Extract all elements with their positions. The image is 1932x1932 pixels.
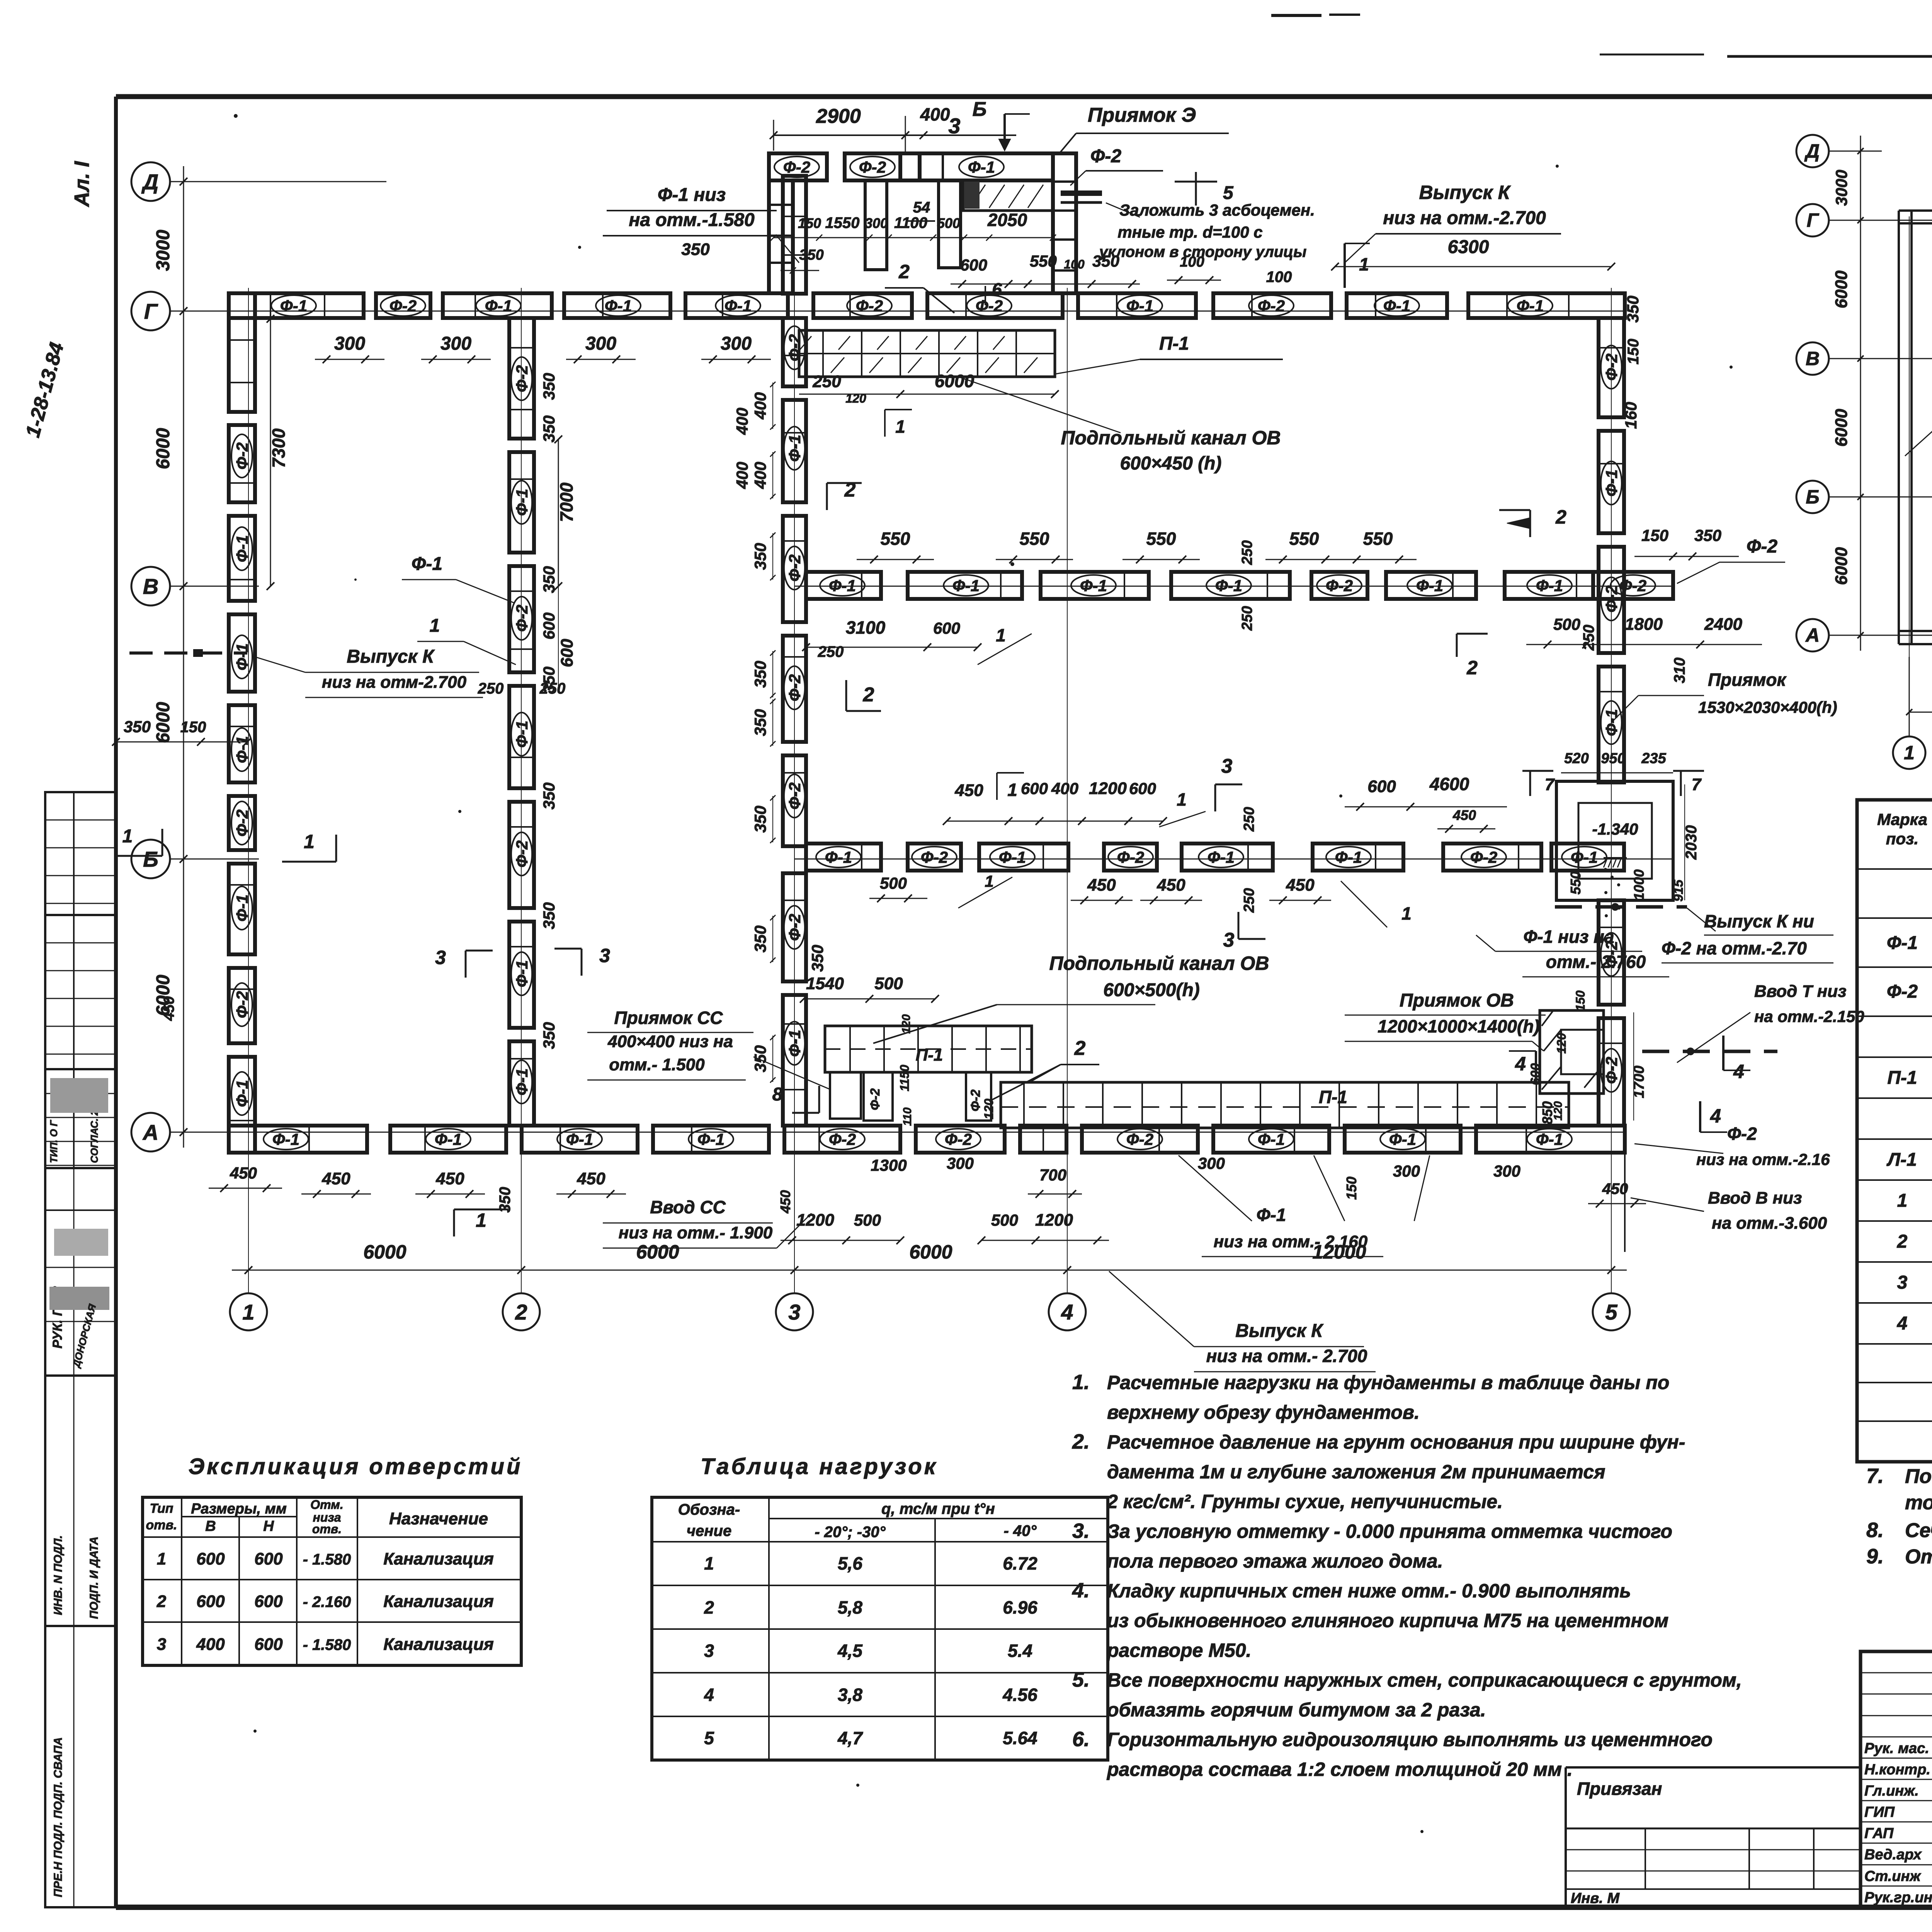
svg-text:Б: Б (143, 847, 158, 871)
svg-text:Ф-1: Ф-1 (1389, 1130, 1416, 1148)
svg-text:Приямок: Приямок (1708, 670, 1787, 690)
svg-text:2 кгс/см². Грунты сухие, непу: 2 кгс/см². Грунты сухие, непучинистые. (1107, 1491, 1503, 1512)
svg-text:600: 600 (960, 256, 987, 274)
svg-text:Б: Б (973, 98, 987, 121)
dims above axis B wall (943, 755, 1507, 951)
svg-text:Ф-2: Ф-2 (513, 840, 531, 867)
dims below axis B wall (869, 872, 1412, 927)
load plan axis lines (1829, 143, 1932, 736)
svg-text:1100: 1100 (894, 214, 927, 231)
svg-text:Ввод Т низ: Ввод Т низ (1754, 982, 1847, 1001)
svg-text:чение: чение (687, 1522, 731, 1539)
svg-text:Г: Г (1807, 209, 1820, 231)
svg-text:1: 1 (996, 625, 1006, 645)
svg-text:Ф-1: Ф-1 (435, 1130, 462, 1148)
svg-text:150: 150 (798, 215, 821, 231)
svg-text:150: 150 (1625, 339, 1642, 365)
svg-text:5: 5 (1223, 183, 1234, 203)
svg-text:В: В (205, 1518, 216, 1534)
svg-text:2: 2 (863, 684, 874, 706)
svg-text:3: 3 (1221, 755, 1233, 777)
svg-text:6000: 6000 (909, 1241, 952, 1263)
dim 600 on axis2 (558, 586, 559, 692)
svg-text:400: 400 (1051, 779, 1078, 798)
svg-text:Ф-2: Ф-2 (233, 991, 251, 1018)
svg-text:А: А (1805, 624, 1820, 646)
svg-text:2030: 2030 (1683, 825, 1700, 860)
svg-text:Ф-2 на отм.-2.70: Ф-2 на отм.-2.70 (1662, 938, 1807, 958)
svg-text:3: 3 (788, 1300, 800, 1324)
svg-text:Ф-1: Ф-1 (233, 1080, 251, 1107)
svg-text:1.: 1. (1072, 1371, 1090, 1394)
svg-text:Ф-1: Ф-1 (513, 721, 531, 748)
svg-text:Ф-1: Ф-1 (280, 297, 307, 315)
rotated dims along axis 2 (540, 373, 558, 1049)
svg-text:400: 400 (196, 1635, 225, 1654)
svg-text:Ф-2: Ф-2 (1090, 146, 1121, 167)
svg-text:600: 600 (540, 612, 558, 639)
bottom leaders and dims (301, 1124, 1830, 1372)
svg-text:Приямок Э: Приямок Э (1088, 104, 1196, 126)
svg-text:6000: 6000 (636, 1241, 679, 1263)
svg-text:Ф-1: Ф-1 (1258, 1130, 1285, 1148)
svg-text:Ф-2: Ф-2 (513, 365, 531, 392)
svg-text:4.56: 4.56 (1002, 1685, 1037, 1705)
svg-text:400: 400 (920, 104, 950, 124)
svg-text:9.: 9. (1866, 1545, 1884, 1568)
svg-text:7000: 7000 (556, 482, 577, 522)
svg-text:6.72: 6.72 (1003, 1553, 1037, 1573)
svg-text:6300: 6300 (1448, 237, 1489, 257)
svg-text:на отм.-2.150: на отм.-2.150 (1754, 1007, 1864, 1026)
svg-text:За условную отметку - 0.000 п: За условную отметку - 0.000 принята отме… (1107, 1520, 1672, 1542)
svg-text:ИНВ. N ПОДЛ.: ИНВ. N ПОДЛ. (52, 1535, 65, 1615)
svg-text:Ф-2: Ф-2 (859, 158, 886, 176)
svg-text:Ф-2: Ф-2 (1727, 1124, 1757, 1144)
svg-text:2900: 2900 (816, 105, 861, 128)
svg-text:600: 600 (1367, 777, 1396, 796)
leader F-1 and 1 on axis2 wall (402, 554, 516, 665)
svg-text:550: 550 (1030, 252, 1057, 270)
svg-text:Ф-1: Ф-1 (968, 158, 995, 176)
svg-text:ГАП: ГАП (1864, 1825, 1894, 1842)
svg-text:350: 350 (751, 925, 769, 952)
svg-text:Ф-1: Ф-1 (697, 1130, 724, 1148)
svg-text:500: 500 (937, 215, 960, 231)
svg-text:Д: Д (1804, 140, 1820, 162)
svg-text:Ф-1: Ф-1 (412, 554, 442, 574)
svg-text:Вед.арх: Вед.арх (1864, 1847, 1922, 1863)
svg-text:350: 350 (751, 1045, 769, 1072)
secondary vertical dimension 7000 (478, 435, 577, 697)
svg-text:Отметка низа фундаментов - 2.: Отметка низа фундаментов - 2.160, кроме … (1905, 1546, 1932, 1568)
svg-text:350: 350 (751, 709, 769, 736)
svg-text:450: 450 (1452, 807, 1476, 823)
pit near axis5 between V and B (1556, 670, 1837, 901)
svg-text:Назначение: Назначение (389, 1509, 488, 1528)
svg-text:Г: Г (144, 299, 158, 323)
svg-text:1550: 1550 (825, 214, 860, 231)
interior wall along axis V (806, 572, 1673, 599)
svg-text:Ф-1: Ф-1 (786, 435, 804, 462)
svg-text:Ф-1: Ф-1 (233, 643, 251, 670)
svg-text:915: 915 (1671, 879, 1686, 902)
svg-text:350: 350 (540, 373, 558, 400)
svg-text:150: 150 (1641, 526, 1668, 544)
svg-text:450: 450 (161, 996, 177, 1021)
svg-text:Расчетные нагрузки на фунда: Расчетные нагрузки на фундаменты в табли… (1107, 1372, 1669, 1393)
svg-text:120: 120 (1554, 1033, 1568, 1054)
leader Vypusk K top right (1266, 182, 1615, 286)
svg-text:400: 400 (751, 462, 769, 489)
svg-text:600: 600 (1021, 779, 1048, 798)
svg-text:1: 1 (476, 1209, 486, 1231)
svg-text:2: 2 (1074, 1037, 1086, 1060)
svg-text:250: 250 (1239, 606, 1255, 631)
svg-text:Ф-2: Ф-2 (1619, 577, 1646, 595)
svg-text:400: 400 (733, 408, 751, 435)
svg-text:550: 550 (1568, 871, 1583, 895)
svg-text:6000: 6000 (153, 702, 173, 743)
svg-text:400: 400 (733, 462, 751, 489)
svg-text:4,5: 4,5 (837, 1641, 863, 1661)
left outside leaders (112, 646, 483, 1192)
svg-text:300: 300 (1393, 1162, 1420, 1180)
svg-text:300: 300 (585, 333, 616, 354)
bottom axis circles 1-5 (230, 1293, 1630, 1330)
section marks middle (282, 410, 1566, 1236)
svg-text:1: 1 (895, 417, 905, 437)
svg-text:Ф-2: Ф-2 (513, 605, 531, 632)
svg-text:Расчетное давление на грунт: Расчетное давление на грунт основания пр… (1107, 1431, 1685, 1453)
notes 1-6 (1072, 1371, 1742, 1780)
svg-text:отм.- 1.500: отм.- 1.500 (609, 1055, 705, 1074)
left margin stamp strip (45, 792, 116, 1907)
svg-text:Инв. М: Инв. М (1571, 1890, 1620, 1906)
svg-text:пола первого этажа жилого: пола первого этажа жилого дома. (1107, 1550, 1443, 1572)
svg-text:350: 350 (540, 902, 558, 929)
svg-text:300: 300 (1493, 1162, 1520, 1180)
svg-text:850: 850 (1539, 1101, 1555, 1124)
utility entry dashed lines right of axis 5 (1555, 868, 1777, 1082)
dims 400 gaps axis3 upper (733, 408, 751, 489)
svg-text:- 20°; -30°: - 20°; -30° (815, 1524, 886, 1541)
svg-text:4: 4 (1061, 1300, 1073, 1324)
svg-text:Ф-2: Ф-2 (968, 1090, 983, 1112)
svg-text:600: 600 (196, 1592, 225, 1611)
svg-text:350: 350 (751, 661, 769, 688)
svg-text:1150: 1150 (898, 1065, 912, 1091)
svg-text:250: 250 (1241, 807, 1257, 832)
leader Priyamok E (1058, 104, 1229, 185)
svg-text:Ф-1: Ф-1 (724, 297, 752, 315)
svg-text:6.96: 6.96 (1003, 1597, 1037, 1617)
svg-text:350: 350 (751, 806, 769, 833)
svg-text:Б: Б (1806, 486, 1819, 508)
svg-text:В: В (143, 574, 158, 599)
rotated dims along axis 3 (751, 382, 827, 1083)
svg-text:1540: 1540 (806, 974, 844, 993)
svg-text:3000: 3000 (1832, 170, 1850, 206)
wall along axis 5 (right) (1599, 318, 1624, 1126)
svg-text:450: 450 (1156, 876, 1185, 895)
svg-text:Ф-1: Ф-1 (1126, 297, 1153, 315)
svg-text:отв.: отв. (146, 1518, 177, 1532)
svg-text:520: 520 (1564, 750, 1588, 767)
svg-text:- 1.580: - 1.580 (303, 1636, 351, 1653)
svg-text:Выпуск К: Выпуск К (1419, 182, 1511, 203)
svg-text:Ф-1: Ф-1 (999, 848, 1026, 866)
svg-text:550: 550 (1363, 529, 1393, 549)
svg-text:Ф-1: Ф-1 (566, 1130, 593, 1148)
svg-text:П-1: П-1 (1159, 333, 1189, 354)
svg-text:450: 450 (1087, 876, 1116, 895)
svg-text:400×400 низ на: 400×400 низ на (607, 1032, 733, 1051)
svg-text:Ф-2: Ф-2 (1747, 536, 1777, 557)
axis circle V (131, 567, 170, 605)
svg-text:П-1: П-1 (1319, 1087, 1347, 1107)
svg-text:Ф-2: Ф-2 (233, 442, 251, 469)
leader Zalozhit 3 asbocement pipes (1061, 172, 1315, 260)
svg-text:Ф-2: Ф-2 (1887, 981, 1918, 1002)
section 7 marks at pit (1522, 771, 1704, 796)
axis circle G (131, 292, 170, 330)
svg-text:2: 2 (156, 1592, 167, 1611)
svg-text:Под сборными фундаментами устр: Под сборными фундаментами устраивать пес… (1905, 1465, 1932, 1488)
load plan left dim line (1832, 136, 1864, 651)
svg-text:Ф-1: Ф-1 (1536, 1130, 1563, 1148)
svg-text:3: 3 (157, 1635, 166, 1654)
svg-text:3: 3 (435, 947, 446, 968)
svg-text:5.64: 5.64 (1003, 1728, 1037, 1748)
svg-text:поз.: поз. (1886, 830, 1918, 848)
svg-text:350: 350 (540, 415, 558, 442)
svg-text:3100: 3100 (846, 617, 886, 638)
svg-text:ТИП. О Г: ТИП. О Г (48, 1120, 60, 1163)
svg-text:Ал. I: Ал. I (70, 161, 94, 207)
load plan bottom dim line (1906, 681, 1932, 715)
svg-text:235: 235 (1641, 750, 1666, 767)
svg-text:350: 350 (1624, 296, 1642, 323)
svg-text:Сечения и развертки смотри: Сечения и развертки смотри лист 18 (1905, 1519, 1932, 1542)
left overall dimension line (153, 166, 187, 1148)
svg-text:6000: 6000 (1832, 270, 1851, 308)
svg-text:600: 600 (254, 1635, 283, 1654)
svg-text:500: 500 (1553, 615, 1580, 633)
svg-text:7.: 7. (1866, 1464, 1884, 1488)
svg-text:2: 2 (1555, 506, 1566, 528)
svg-text:5,6: 5,6 (838, 1553, 862, 1573)
svg-text:5: 5 (704, 1728, 714, 1748)
svg-text:350: 350 (751, 543, 769, 570)
svg-text:1: 1 (157, 1549, 166, 1568)
svg-text:Ф-2: Ф-2 (786, 674, 804, 701)
svg-text:6: 6 (992, 279, 1002, 299)
svg-text:- 1.580: - 1.580 (303, 1551, 351, 1568)
svg-text:4: 4 (1733, 1061, 1744, 1082)
svg-text:1: 1 (1007, 780, 1017, 800)
svg-text:350: 350 (540, 566, 558, 593)
svg-text:ГИП: ГИП (1864, 1804, 1895, 1820)
svg-text:110: 110 (901, 1107, 914, 1126)
svg-text:3.: 3. (1072, 1519, 1090, 1543)
svg-text:верхнему обрезу фундаментов.: верхнему обрезу фундаментов. (1107, 1401, 1420, 1423)
svg-text:1: 1 (1904, 742, 1915, 764)
section mark 2 left-center (827, 479, 881, 711)
svg-text:низ на отм-2.700: низ на отм-2.700 (322, 673, 467, 692)
svg-text:Ф-1 низ: Ф-1 низ (658, 185, 726, 205)
svg-text:Ф-1: Ф-1 (1536, 577, 1563, 595)
svg-text:54: 54 (913, 199, 930, 216)
svg-text:5.: 5. (1072, 1668, 1090, 1691)
svg-text:Ф-1: Ф-1 (1383, 297, 1410, 315)
svg-text:300: 300 (947, 1154, 974, 1172)
svg-text:на отм.-1.580: на отм.-1.580 (629, 210, 755, 230)
svg-text:2050: 2050 (987, 210, 1027, 230)
svg-text:В: В (1806, 348, 1820, 369)
svg-text:100: 100 (1064, 257, 1085, 271)
secondary vertical dimension 7300 (267, 315, 289, 590)
svg-text:1200×1000×1400(h): 1200×1000×1400(h) (1378, 1016, 1539, 1036)
leader Priyamok SS (587, 1008, 831, 1090)
dims 550 above axis V wall (857, 526, 1739, 563)
svg-text:- 40°: - 40° (1004, 1522, 1037, 1539)
svg-text:Заложить 3 асбоцемен.: Заложить 3 асбоцемен. (1119, 201, 1315, 219)
wall along axis 1 (left) (229, 293, 255, 1153)
svg-text:2: 2 (898, 261, 910, 282)
svg-text:Ф-2: Ф-2 (1126, 1130, 1153, 1148)
svg-text:ПРЕ.Н ПОДЛ. ПОДП. СВАПА: ПРЕ.Н ПОДЛ. ПОДП. СВАПА (52, 1737, 65, 1897)
svg-text:500: 500 (991, 1211, 1018, 1229)
svg-text:q, тс/м при t°н: q, тс/м при t°н (881, 1500, 995, 1517)
corner marks top-left (22, 161, 94, 440)
svg-text:Ф-1: Ф-1 (1257, 1205, 1286, 1225)
svg-text:600: 600 (196, 1549, 225, 1568)
svg-text:- 2.160: - 2.160 (303, 1594, 351, 1611)
svg-text:Ф-1: Ф-1 (233, 895, 251, 922)
load plan leader numbers (1905, 137, 1932, 638)
svg-text:Ф-2: Ф-2 (786, 914, 804, 941)
load plan outer walls (1899, 211, 1932, 644)
svg-text:350: 350 (124, 718, 151, 736)
svg-text:6000: 6000 (935, 371, 975, 391)
svg-text:550: 550 (1146, 529, 1176, 549)
svg-text:150: 150 (1573, 990, 1587, 1011)
svg-text:обмазять горячим битумом з: обмазять горячим битумом за 2 раза. (1107, 1699, 1486, 1721)
svg-text:4600: 4600 (1429, 774, 1469, 794)
svg-text:3: 3 (1897, 1272, 1908, 1293)
axis circle A (131, 1113, 170, 1151)
svg-text:Ф-2: Ф-2 (829, 1130, 856, 1148)
svg-text:250: 250 (812, 372, 841, 391)
svg-text:1800: 1800 (1625, 615, 1663, 634)
svg-text:350: 350 (808, 945, 827, 972)
wall along axis 3 (783, 176, 806, 1126)
svg-text:Ф-1: Ф-1 (485, 297, 512, 315)
svg-text:Ввод В низ: Ввод В низ (1708, 1189, 1802, 1207)
svg-text:Ф-1: Ф-1 (1215, 577, 1242, 595)
svg-text:Экспликация отверстий: Экспликация отверстий (189, 1454, 523, 1479)
svg-text:7: 7 (1545, 775, 1555, 794)
svg-text:1200: 1200 (796, 1211, 834, 1230)
svg-text:растворе М50.: растворе М50. (1106, 1639, 1252, 1661)
svg-text:Размеры, мм: Размеры, мм (191, 1501, 287, 1517)
leader underfloor channel OV bottom (873, 952, 1269, 1043)
svg-text:550: 550 (881, 529, 910, 549)
svg-text:Таблица нагрузок: Таблица нагрузок (701, 1454, 938, 1479)
svg-text:Выпуск К: Выпуск К (1235, 1321, 1324, 1341)
svg-text:100: 100 (1266, 269, 1292, 286)
svg-text:450: 450 (321, 1169, 350, 1188)
svg-text:Ф-1: Ф-1 (825, 848, 852, 866)
svg-text:Тип: Тип (150, 1501, 173, 1516)
svg-text:3: 3 (1223, 929, 1235, 951)
underfloor channel OV top with hatch (799, 330, 1283, 474)
svg-text:7: 7 (1692, 775, 1702, 794)
svg-text:Канализация: Канализация (383, 1592, 494, 1611)
svg-text:Ф-2: Ф-2 (1326, 577, 1353, 595)
svg-text:Приямок СС: Приямок СС (614, 1008, 723, 1028)
svg-text:отв.: отв. (312, 1522, 342, 1536)
table Tablica nagruzok title (701, 1454, 938, 1479)
svg-text:2: 2 (1466, 657, 1478, 679)
svg-text:350: 350 (1694, 526, 1721, 544)
svg-text:4: 4 (704, 1685, 714, 1705)
load plan axis circles bottom (1893, 736, 1932, 769)
svg-text:1: 1 (1177, 789, 1187, 810)
svg-text:4: 4 (1897, 1313, 1908, 1334)
svg-text:1: 1 (430, 616, 440, 636)
svg-text:Ф-1: Ф-1 (1517, 297, 1544, 315)
spec table header (1877, 810, 1932, 848)
svg-text:3: 3 (704, 1641, 714, 1661)
svg-text:250: 250 (478, 680, 504, 697)
axis circle D (131, 162, 170, 201)
svg-text:1: 1 (304, 831, 315, 852)
svg-text:низ на отм.- 1.900: низ на отм.- 1.900 (619, 1223, 773, 1242)
svg-text:Кладку кирпичных стен ниже: Кладку кирпичных стен ниже отм.- 0.900 в… (1107, 1580, 1631, 1602)
svg-text:П-1: П-1 (916, 1046, 943, 1065)
svg-text:Ф-1: Ф-1 (1887, 933, 1918, 953)
svg-text:7300: 7300 (269, 428, 289, 468)
right side leaders near axis 5 (1476, 536, 1864, 1063)
svg-text:Горизонтальную гидроизоляцию: Горизонтальную гидроизоляцию выполнять и… (1107, 1729, 1713, 1750)
bottom overall dimension line (232, 1241, 1627, 1274)
svg-text:350: 350 (540, 1022, 558, 1049)
svg-text:6.: 6. (1072, 1728, 1090, 1751)
pit Priyamok E hatched (963, 181, 1053, 211)
svg-text:уклоном в сторону улицы: уклоном в сторону улицы (1099, 243, 1307, 260)
svg-text:4.: 4. (1072, 1579, 1090, 1602)
svg-text:150: 150 (180, 719, 206, 736)
svg-text:Ф-1: Ф-1 (605, 297, 632, 315)
interior wall along axis B (806, 844, 1624, 871)
dim 2900/400 above extension (770, 98, 1030, 155)
svg-text:Ввод СС: Ввод СС (650, 1197, 726, 1217)
svg-text:600×500(h): 600×500(h) (1103, 980, 1200, 1000)
svg-text:300: 300 (334, 333, 365, 354)
long bottom channel strip P-1 (982, 1063, 1569, 1128)
svg-text:450: 450 (1286, 876, 1315, 895)
svg-text:Д: Д (141, 170, 158, 194)
svg-text:низ на отм.- 2.700: низ на отм.- 2.700 (1206, 1346, 1367, 1366)
svg-text:550: 550 (1020, 529, 1049, 549)
svg-text:400: 400 (751, 392, 769, 420)
svg-text:600: 600 (254, 1592, 283, 1611)
svg-text:Приямок ОВ: Приямок ОВ (1400, 990, 1514, 1011)
svg-text:Н.контр.: Н.контр. (1864, 1762, 1930, 1778)
svg-text:6000: 6000 (153, 428, 173, 469)
